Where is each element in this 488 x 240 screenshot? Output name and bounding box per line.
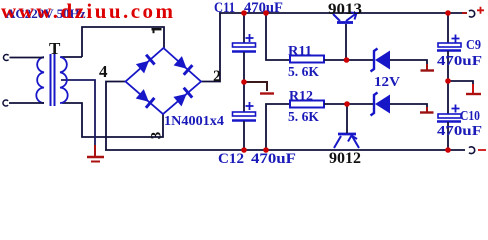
wire center-tap to ground <box>61 80 95 148</box>
resistor R11 <box>266 13 373 63</box>
svg-text:470uF: 470uF <box>251 151 296 164</box>
svg-text:2: 2 <box>213 68 221 85</box>
zener diode ZD2 12V <box>371 93 428 116</box>
svg-text:470uF: 470uF <box>437 54 482 69</box>
node dot bottom rail C12 <box>241 147 247 153</box>
terminal output minus <box>469 147 475 154</box>
terminal primary bottom <box>3 100 8 106</box>
svg-text:1N4001x4: 1N4001x4 <box>164 114 224 129</box>
node dot output mid <box>445 78 451 84</box>
wire bottom rail <box>105 149 465 151</box>
svg-text:3: 3 <box>149 132 165 140</box>
wire secondary-top to bridge pin1 <box>82 27 164 57</box>
transformer core <box>50 54 52 106</box>
diode D2 top-right <box>174 56 193 75</box>
svg-text:R11: R11 <box>288 44 312 59</box>
terminal primary top <box>3 55 8 61</box>
transformer T primary winding <box>36 57 44 103</box>
diode D4 bottom-right <box>173 88 192 107</box>
svg-text:4: 4 <box>99 62 108 81</box>
pin label 1 (rotated) <box>152 28 162 33</box>
svg-text:9013: 9013 <box>328 1 362 18</box>
transistor Q1 9013 <box>333 13 357 23</box>
node dot base 9012 <box>344 101 350 107</box>
ground zener top (red) <box>426 64 428 70</box>
node dot top rail R11 <box>263 10 269 16</box>
svg-text:9012: 9012 <box>329 150 361 164</box>
svg-text:5. 6K: 5. 6K <box>288 65 319 80</box>
capacitor C10 <box>437 81 461 150</box>
zener diode ZD1 12V <box>371 49 428 72</box>
capacitor C12 <box>232 82 256 150</box>
transistor Q2 9012 <box>334 134 359 148</box>
capacitor C9 <box>437 13 461 81</box>
svg-text:T: T <box>49 39 61 58</box>
node dot base 9013 <box>344 57 350 63</box>
svg-text:C9: C9 <box>466 38 481 53</box>
diode D3 bottom-left <box>136 89 155 108</box>
ground zener bottom (red) <box>426 107 428 112</box>
svg-text:C10: C10 <box>460 109 480 124</box>
bridge rectifier diamond <box>126 48 202 114</box>
node dot top rail C9 <box>445 10 451 16</box>
svg-text:www.dziuu.com: www.dziuu.com <box>1 0 174 23</box>
node dot bottom rail C10 <box>445 147 451 153</box>
svg-text:C12: C12 <box>218 151 244 164</box>
terminal output plus <box>462 12 467 14</box>
node dot bottom rail R12 <box>263 147 269 153</box>
capacitor C11 <box>232 13 256 82</box>
resistor R12 <box>266 101 373 151</box>
svg-text:5. 6K: 5. 6K <box>288 110 319 125</box>
ground center-tap (red) <box>87 145 104 162</box>
ground output mid (red) <box>448 81 473 86</box>
wire bridge pin2 to top rail <box>201 13 220 82</box>
node dot top rail C11 <box>241 10 247 16</box>
svg-text:R12: R12 <box>289 89 313 104</box>
wire secondary-bottom to bridge pin3 <box>62 103 163 137</box>
diode D1 top-left <box>136 55 155 74</box>
wire bridge pin4 to negative rail <box>106 82 126 151</box>
transformer secondary winding <box>60 57 68 103</box>
svg-text:C11: C11 <box>214 0 235 16</box>
svg-text:12V: 12V <box>374 75 400 90</box>
ground mid filter (red) <box>244 82 267 91</box>
svg-text:470uF: 470uF <box>437 124 482 139</box>
wire top rail <box>219 12 465 14</box>
wire secondary-top lead <box>61 56 82 58</box>
node dot mid C11-C12 <box>241 79 247 85</box>
